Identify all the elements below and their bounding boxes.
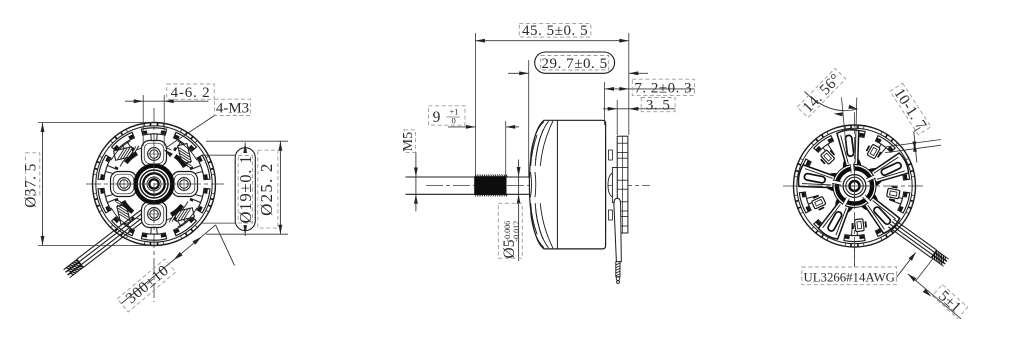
dimension D19 line: [244, 143, 246, 148]
svg-text:4-6. 2: 4-6. 2: [171, 85, 211, 101]
right view outer rotor circle: [794, 125, 916, 247]
dimension 5+-1: [916, 259, 933, 281]
dimension 14.56deg label: [797, 68, 845, 117]
svg-text:7. 2±0. 3: 7. 2±0. 3: [634, 81, 692, 97]
dimension 29.7 stadium label: [535, 52, 615, 73]
right view hub: [833, 165, 876, 208]
left view shaft hub rings: [134, 164, 174, 204]
dimension D5 leader: [518, 160, 520, 262]
svg-text:29. 7±0. 5: 29. 7±0. 5: [541, 56, 607, 72]
dimension D5 label: [498, 203, 522, 258]
dimension 3.5 line: [603, 108, 675, 110]
svg-text:Ø37. 5: Ø37. 5: [23, 163, 40, 208]
right view center lines: [783, 185, 926, 187]
dimension 9 line: [448, 126, 475, 128]
dimension 7.2 line: [605, 88, 695, 90]
left view stator teeth ring: [141, 128, 166, 135]
dimension 3.5 extension line: [616, 100, 618, 135]
left view 4x M3 screw holes: [148, 148, 161, 161]
callout 4-M3 label: [215, 99, 251, 115]
svg-text:UL3266#14AWG: UL3266#14AWG: [804, 270, 895, 284]
dimension 29.7 line: [508, 72, 529, 74]
svg-text:9: 9: [433, 109, 441, 126]
left view magnet windows: [178, 144, 193, 171]
svg-text:Ø19±0. 1: Ø19±0. 1: [236, 155, 255, 224]
svg-text:M5: M5: [401, 132, 416, 151]
dimension 14.56deg: [842, 98, 847, 152]
left view rim tick marks: [212, 173, 215, 176]
callout M5 leader: [415, 152, 417, 211]
dimension D19 stadium label: [235, 148, 255, 231]
svg-text:3. 5: 3. 5: [646, 98, 671, 114]
dimension D37.5 label: [26, 153, 40, 195]
left view motor lead wires: [83, 213, 154, 268]
right view motor lead wires: [894, 219, 937, 250]
dimension D37.5 extension lines: [38, 122, 152, 124]
dimension 300+-10 line: [121, 225, 215, 304]
dimension 4-6.2 label: [167, 84, 215, 99]
dimension 9 label: [429, 106, 466, 125]
callout 10-1.7 label: [890, 83, 931, 135]
callout UL3266 label: [802, 267, 897, 285]
dimension 29.7 extension line: [528, 60, 530, 178]
dimension 3.5 label: [641, 98, 675, 112]
dimension 300+-10 label: [117, 259, 175, 312]
dimension 45.5 line: [475, 40, 628, 42]
left view outer rotor circle: [93, 123, 216, 246]
svg-text:45. 5±0. 5: 45. 5±0. 5: [522, 23, 588, 39]
dimension 7.2 label: [632, 79, 694, 95]
dimension D25.2 extension lines: [206, 140, 288, 142]
dimension 4-6.2 line: [125, 100, 209, 102]
side view center line: [426, 185, 650, 187]
dimension D37.5 line: [42, 123, 44, 246]
svg-text:-0.006: -0.006: [503, 221, 512, 242]
right view 5 bell spokes: [837, 129, 864, 174]
dimension 4-6.2 extension lines: [142, 95, 144, 146]
dimension D25.2 line: [279, 141, 281, 234]
side view rear mount flange section: [605, 137, 607, 233]
dimension D25.2 label: [258, 150, 278, 228]
right view stator teeth ring: [844, 130, 865, 137]
svg-text:4-M3: 4-M3: [216, 100, 249, 116]
dimension 45.5 extension lines: [474, 33, 476, 176]
svg-text:Ø25. 2: Ø25. 2: [257, 162, 276, 215]
side view bell front cap with cooling fins: [529, 120, 544, 249]
side view shaft: [406, 176, 531, 178]
svg-text:-0.012: -0.012: [512, 221, 521, 242]
dimension 7.2 extension line: [604, 82, 606, 125]
callout M5 label: [404, 130, 415, 153]
right view stator slots in openings: [865, 143, 882, 160]
left view mounting cross plate: [142, 141, 167, 167]
side view threaded shaft section M5: [474, 176, 506, 195]
left view center lines: [153, 108, 155, 302]
right view rim tick marks: [912, 176, 915, 179]
side view bell cylinder: [544, 120, 606, 249]
dimension 5+-1 label: [932, 285, 967, 319]
dimension 45.5 label: [519, 24, 591, 37]
side view hanging lead wire: [614, 198, 621, 261]
dimension D19 extension lines: [202, 154, 236, 156]
